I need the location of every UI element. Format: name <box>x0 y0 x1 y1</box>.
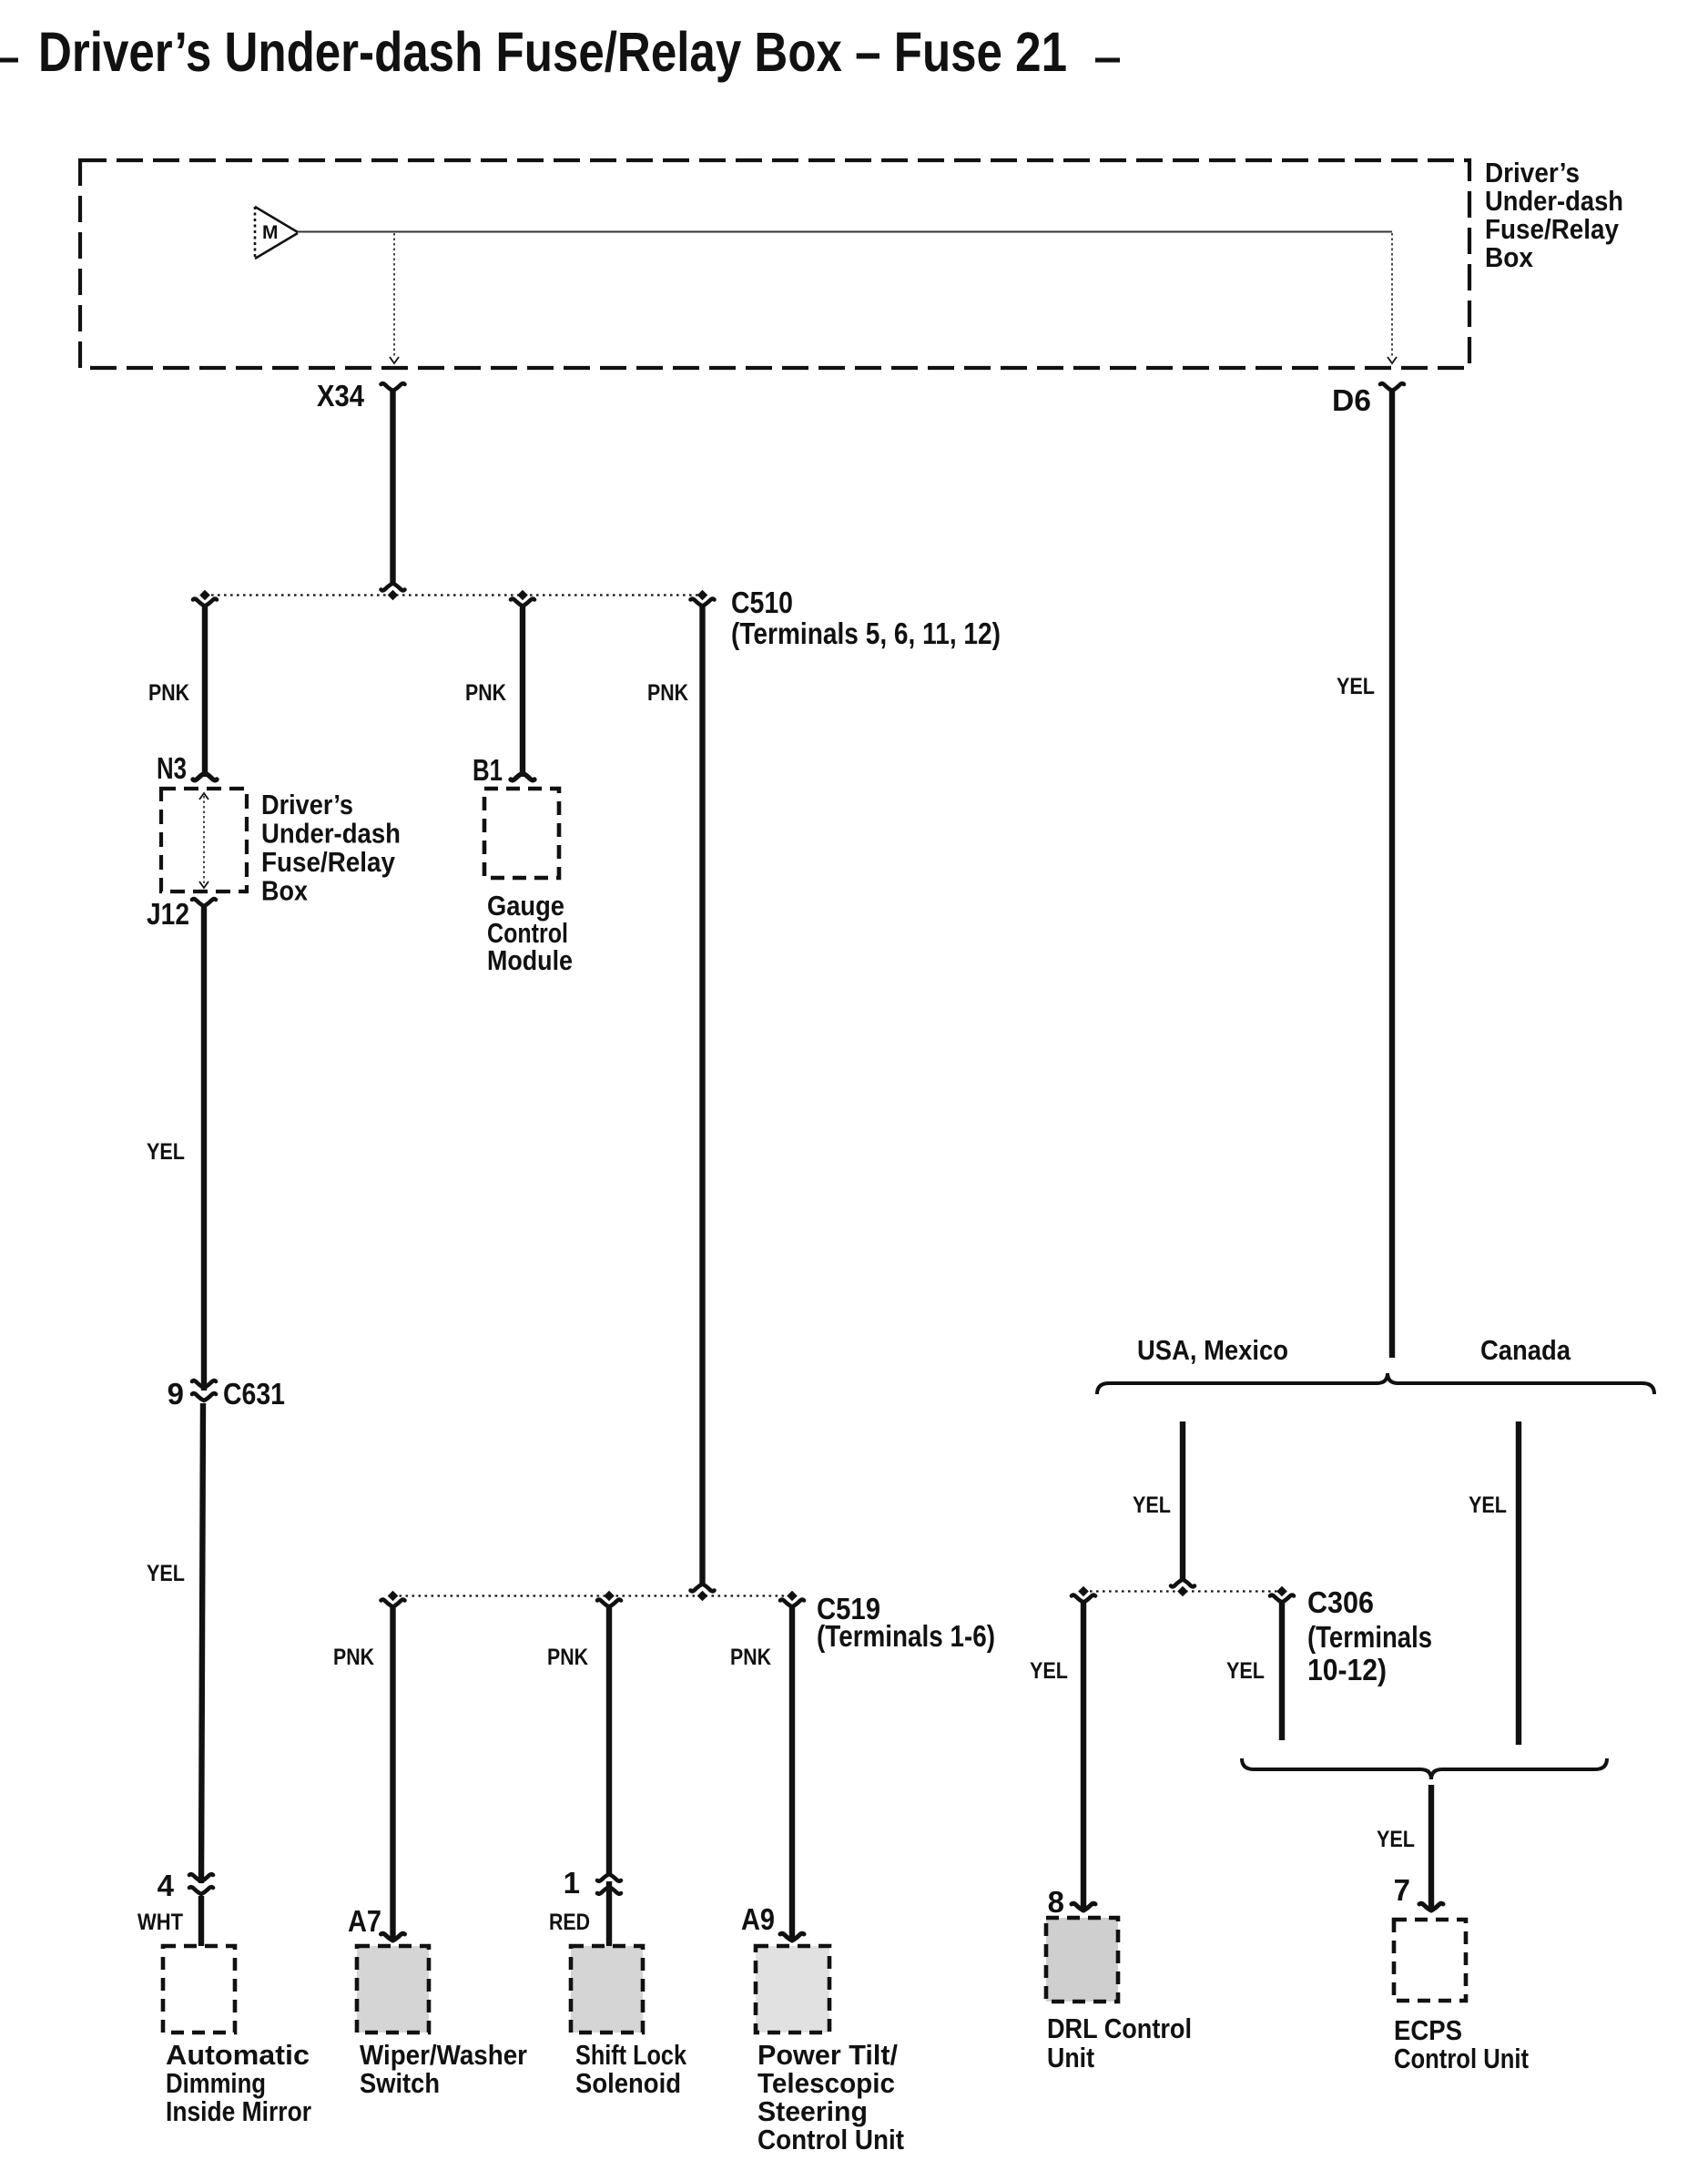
svg-text:Box: Box <box>1485 241 1534 273</box>
svg-text:Control Unit: Control Unit <box>757 2124 904 2155</box>
svg-text:Inside Mirror: Inside Mirror <box>166 2095 311 2127</box>
svg-text:Canada: Canada <box>1480 1334 1571 1366</box>
svg-text:Fuse/Relay: Fuse/Relay <box>261 846 396 878</box>
svg-text:ECPS: ECPS <box>1394 2014 1462 2046</box>
svg-text:YEL: YEL <box>1226 1658 1265 1684</box>
svg-text:10-12): 10-12) <box>1307 1653 1387 1686</box>
svg-text:1: 1 <box>564 1866 580 1900</box>
svg-text:Wiper/Washer: Wiper/Washer <box>360 2039 527 2071</box>
svg-text:Driver’s: Driver’s <box>1485 157 1580 188</box>
svg-text:(Terminals: (Terminals <box>1307 1620 1432 1654</box>
svg-text:N3: N3 <box>157 751 187 785</box>
svg-text:8: 8 <box>1048 1885 1064 1919</box>
svg-text:(Terminals 5, 6, 11, 12): (Terminals 5, 6, 11, 12) <box>731 616 1001 650</box>
svg-text:PNK: PNK <box>730 1645 771 1670</box>
svg-text:DRL Control: DRL Control <box>1047 2012 1192 2044</box>
svg-text:Module: Module <box>487 944 573 976</box>
svg-text:(Terminals 1-6): (Terminals 1-6) <box>817 1619 995 1653</box>
svg-text:A9: A9 <box>741 1902 775 1936</box>
svg-text:7: 7 <box>1394 1873 1410 1907</box>
svg-text:Fuse/Relay: Fuse/Relay <box>1485 213 1620 245</box>
svg-text:J12: J12 <box>147 897 189 931</box>
svg-text:Dimming: Dimming <box>166 2067 266 2099</box>
svg-text:Shift Lock: Shift Lock <box>575 2039 687 2071</box>
svg-text:A7: A7 <box>348 1904 381 1938</box>
svg-text:Control Unit: Control Unit <box>1394 2043 1529 2074</box>
svg-text:WHT: WHT <box>137 1910 183 1935</box>
svg-text:USA, Mexico: USA, Mexico <box>1137 1334 1288 1366</box>
svg-text:YEL: YEL <box>1030 1658 1068 1684</box>
svg-text:PNK: PNK <box>465 680 506 706</box>
svg-text:Unit: Unit <box>1047 2042 1094 2073</box>
svg-text:4: 4 <box>158 1869 175 1902</box>
svg-text:PNK: PNK <box>547 1645 588 1670</box>
svg-text:PNK: PNK <box>647 680 688 706</box>
svg-text:Under-dash: Under-dash <box>261 818 401 850</box>
svg-text:9: 9 <box>168 1377 184 1411</box>
svg-text:YEL: YEL <box>1377 1827 1415 1852</box>
svg-text:Telescopic: Telescopic <box>757 2067 895 2099</box>
svg-text:D6: D6 <box>1332 383 1371 417</box>
svg-text:C306: C306 <box>1307 1585 1374 1619</box>
svg-text:YEL: YEL <box>147 1561 185 1586</box>
svg-text:C631: C631 <box>223 1377 285 1411</box>
svg-text:Driver’s: Driver’s <box>261 789 353 820</box>
svg-text:B1: B1 <box>473 753 503 787</box>
svg-text:Switch: Switch <box>360 2067 440 2099</box>
svg-text:YEL: YEL <box>147 1139 185 1165</box>
svg-text:YEL: YEL <box>1133 1493 1171 1518</box>
svg-text:YEL: YEL <box>1337 674 1375 699</box>
svg-text:Under-dash: Under-dash <box>1485 185 1623 217</box>
svg-text:YEL: YEL <box>1469 1493 1507 1518</box>
svg-text:M: M <box>262 222 279 243</box>
svg-text:X34: X34 <box>317 379 365 413</box>
svg-text:PNK: PNK <box>148 680 189 706</box>
svg-text:Solenoid: Solenoid <box>575 2067 681 2099</box>
svg-text:Box: Box <box>261 875 309 907</box>
svg-text:C510: C510 <box>731 586 793 619</box>
svg-text:Driver’s Under-dash Fuse/Relay: Driver’s Under-dash Fuse/Relay Box – Fus… <box>38 21 1067 83</box>
svg-text:RED: RED <box>549 1910 590 1935</box>
svg-text:PNK: PNK <box>333 1645 374 1670</box>
svg-text:Power Tilt/: Power Tilt/ <box>757 2039 898 2071</box>
svg-text:Automatic: Automatic <box>166 2039 310 2071</box>
svg-text:Steering: Steering <box>757 2095 868 2127</box>
